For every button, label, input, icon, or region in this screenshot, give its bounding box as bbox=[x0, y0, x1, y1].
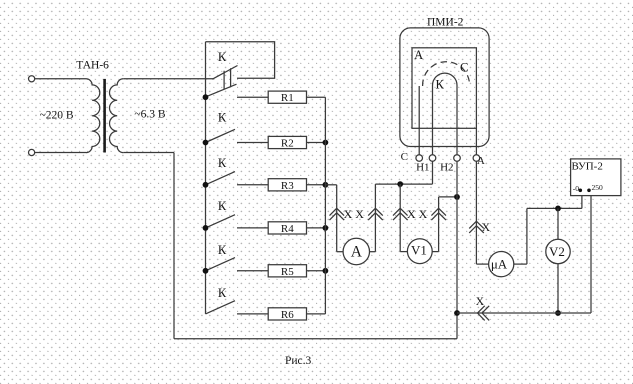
resistor R2 bbox=[268, 136, 306, 148]
connector X1 chevrons bbox=[330, 208, 345, 220]
resistor R1 bbox=[268, 91, 306, 103]
svg-text:К: К bbox=[218, 199, 227, 213]
wire left drop bbox=[173, 153, 175, 339]
node row5 left bbox=[203, 268, 209, 274]
svg-text:Н2: Н2 bbox=[440, 161, 453, 173]
switch K1 box loop bbox=[206, 42, 275, 79]
svg-text:А: А bbox=[477, 155, 485, 167]
wire R4 right bbox=[307, 227, 326, 229]
svg-text:ПМИ-2: ПМИ-2 bbox=[427, 17, 464, 29]
wire bottom right horizontal bbox=[457, 312, 591, 314]
svg-text:К: К bbox=[218, 286, 227, 300]
wire primary top bbox=[35, 78, 86, 80]
transformer core bbox=[103, 79, 106, 153]
wire H1 lead down bbox=[432, 161, 434, 184]
wire ammeter top to H1 bbox=[375, 183, 432, 185]
microammeter uA bbox=[489, 252, 514, 277]
switch K1 blade lower bbox=[206, 84, 237, 97]
terminal 250 bbox=[587, 189, 591, 193]
wire R1 left bbox=[237, 96, 268, 98]
ammeter A bbox=[343, 238, 369, 264]
node V1 tap bbox=[397, 181, 403, 187]
wire ammeter left vertical bbox=[336, 185, 338, 252]
svg-text:Х Х: Х Х bbox=[407, 207, 428, 221]
wire ammeter right vertical bbox=[374, 184, 376, 252]
wire VUP lead1 bbox=[581, 190, 583, 208]
wire V1 right vertical bbox=[438, 197, 440, 252]
wire V1 left vertical bbox=[399, 184, 401, 252]
resistor R4 bbox=[268, 222, 306, 234]
switch K5 blade bbox=[206, 258, 236, 271]
wire ammeter bottom left bbox=[337, 251, 344, 253]
node row5 right bbox=[323, 268, 329, 274]
node row2 right bbox=[323, 140, 329, 146]
tube anode lead bbox=[475, 128, 477, 154]
tube grid lead bbox=[418, 86, 420, 155]
switch K3 blade bbox=[206, 172, 236, 185]
svg-text:ВУП-2: ВУП-2 bbox=[572, 160, 603, 172]
pin Н1 terminal bbox=[429, 155, 436, 162]
wire anode lead down bbox=[475, 161, 477, 264]
svg-text:К: К bbox=[218, 50, 227, 64]
transformer primary winding bbox=[86, 79, 100, 153]
wire top to VUP lead1 bbox=[527, 207, 582, 209]
connector X6 chevrons bbox=[478, 306, 490, 321]
svg-text:С: С bbox=[460, 61, 468, 75]
wire V1 bottom left bbox=[400, 251, 408, 253]
wire R6 right bbox=[307, 313, 326, 315]
node bottom junction bbox=[454, 310, 460, 316]
pin Н2 terminal bbox=[454, 155, 461, 162]
svg-text:R6: R6 bbox=[281, 309, 294, 321]
svg-text:R4: R4 bbox=[281, 223, 294, 235]
svg-text:R1: R1 bbox=[281, 92, 294, 104]
wire R2 left bbox=[237, 142, 268, 144]
node row3 left bbox=[203, 182, 209, 188]
node V2 bottom bbox=[555, 310, 561, 316]
svg-text:~220 В: ~220 В bbox=[40, 110, 74, 122]
wire VUP lead2 bbox=[590, 190, 592, 313]
wire R5 right bbox=[307, 270, 326, 272]
node row3 right bbox=[323, 182, 329, 188]
wire R6 left bbox=[237, 313, 268, 315]
connector X4 chevrons bbox=[431, 208, 446, 220]
voltmeter V1 bbox=[407, 239, 432, 264]
svg-text:V1: V1 bbox=[411, 242, 427, 257]
node row4 right bbox=[323, 225, 329, 231]
switch K1 link bars bbox=[224, 68, 231, 89]
wire R3 right bbox=[307, 184, 326, 186]
wire ammeter bottom right bbox=[370, 251, 376, 253]
svg-text:R2: R2 bbox=[281, 138, 294, 150]
svg-text:Н1: Н1 bbox=[416, 161, 429, 173]
switch K1 blade upper bbox=[212, 66, 237, 80]
wire V1 top to H2 bbox=[439, 196, 457, 198]
svg-text:К: К bbox=[436, 77, 445, 91]
terminal input bottom bbox=[29, 149, 35, 155]
svg-text:Х: Х bbox=[482, 222, 491, 234]
wire secondary top to switch K1 bbox=[123, 78, 213, 80]
wire V1 bottom right bbox=[432, 251, 438, 253]
svg-text:К: К bbox=[218, 243, 227, 257]
wire secondary bottom bbox=[123, 152, 174, 154]
wire R1 right bbox=[307, 96, 326, 98]
svg-text:R3: R3 bbox=[281, 180, 294, 192]
svg-text:Х Х: Х Х bbox=[344, 207, 365, 221]
pin А terminal bbox=[473, 155, 480, 162]
connector X2 chevrons bbox=[368, 208, 383, 220]
terminal 0 bbox=[579, 189, 583, 193]
voltmeter V2 top wire bbox=[557, 208, 559, 239]
wire primary bottom bbox=[35, 152, 86, 154]
svg-text:С: С bbox=[401, 151, 408, 163]
wire R5 left bbox=[237, 270, 268, 272]
node row1 left bbox=[203, 94, 209, 100]
svg-text:Х: Х bbox=[476, 296, 485, 308]
svg-text:К: К bbox=[218, 111, 227, 125]
node row4 left bbox=[203, 225, 209, 231]
wire bottom long bbox=[174, 338, 457, 340]
resistor R6 bbox=[268, 308, 306, 320]
wire bottom right riser bbox=[456, 313, 458, 339]
switch K6 blade bbox=[206, 301, 236, 314]
switch K2 blade bbox=[206, 129, 236, 142]
svg-text:-0: -0 bbox=[573, 184, 579, 193]
svg-text:А: А bbox=[414, 48, 423, 62]
wire uA bottom left bbox=[476, 263, 488, 265]
wire R3 left bbox=[237, 184, 268, 186]
voltmeter V2 bottom wire bbox=[557, 264, 559, 313]
svg-text:А: А bbox=[351, 244, 363, 261]
node row2 left bbox=[203, 140, 209, 146]
tube ПМИ-2 envelope bbox=[400, 28, 489, 147]
tube anode box bbox=[412, 48, 476, 129]
svg-text:R5: R5 bbox=[281, 266, 294, 278]
svg-text:~6.3 В: ~6.3 В bbox=[134, 109, 165, 121]
svg-text:μА: μА bbox=[491, 256, 508, 271]
tube filament К bbox=[433, 73, 458, 155]
right bus bbox=[324, 97, 326, 314]
connector X5 chevrons bbox=[469, 221, 484, 233]
node H2 junction bbox=[454, 194, 460, 200]
svg-text:250: 250 bbox=[592, 183, 604, 192]
transformer secondary winding bbox=[110, 79, 124, 153]
wire R4 left bbox=[237, 227, 268, 229]
resistor R5 bbox=[268, 265, 306, 277]
switch bus K bbox=[205, 42, 207, 314]
svg-text:V2: V2 bbox=[549, 244, 565, 259]
wire tap to ammeter branch bbox=[325, 184, 336, 186]
svg-text:Рис.3: Рис.3 bbox=[285, 355, 312, 367]
wire uA right vertical bbox=[526, 208, 528, 264]
voltmeter V2 bbox=[546, 239, 570, 263]
tube grid dashed arc C bbox=[423, 62, 470, 86]
connector X3 chevrons bbox=[393, 208, 408, 220]
pin С terminal bbox=[416, 155, 423, 162]
switch K4 blade bbox=[206, 215, 236, 228]
terminal input top bbox=[29, 76, 35, 82]
wire H2 lead long vertical bbox=[456, 161, 458, 313]
svg-text:ТАН-6: ТАН-6 bbox=[76, 59, 109, 71]
resistor R3 bbox=[268, 179, 306, 191]
node V2 top bbox=[555, 206, 561, 212]
wire uA right bbox=[514, 263, 527, 265]
svg-text:К: К bbox=[218, 156, 227, 170]
wire R2 right bbox=[307, 142, 326, 144]
power supply ВУП-2 bbox=[571, 159, 621, 196]
